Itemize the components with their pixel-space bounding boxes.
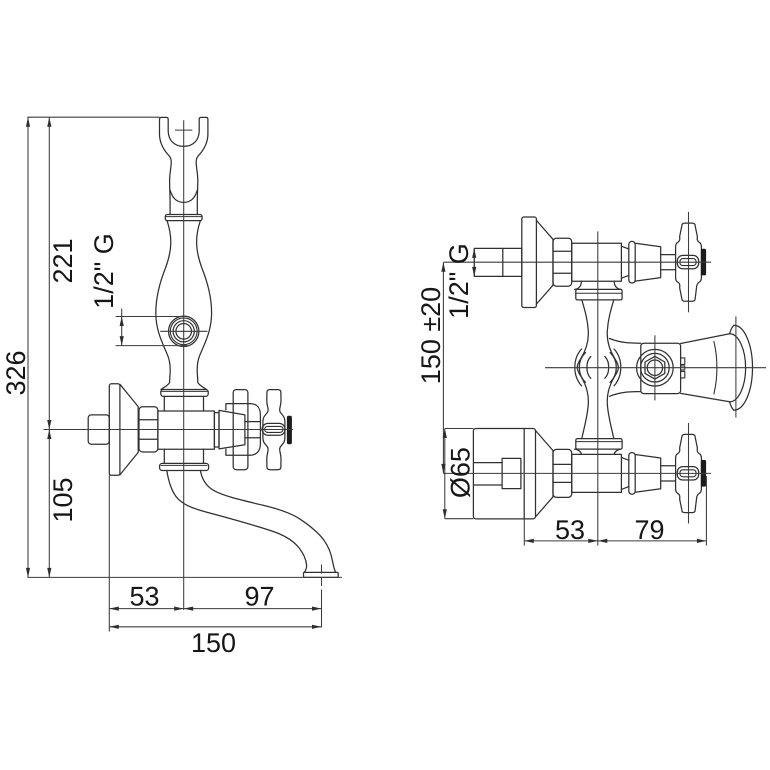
spout tube left wall [167,471,307,573]
spout neck walls [164,449,203,463]
column bottom collar lip [576,441,622,443]
half inch dim line right [473,248,475,276]
spout outlet foot [304,572,339,577]
dim line 150 [109,626,321,628]
bottom valve axis [443,472,711,474]
upper collar lip [162,390,207,392]
top valve axis [443,261,711,263]
column bottom fillets [575,449,621,454]
top flange cone [536,220,553,304]
dia65 ext lines [445,429,474,519]
svg-text:326: 326 [1,350,31,395]
dim line 53-97 [109,608,321,610]
bell lip curves [730,325,734,410]
bottom flange cone [536,431,554,517]
right wall plane extension [523,519,525,546]
bottom hex nut [553,449,572,497]
vase body right wall [197,221,212,390]
svg-text:150 ±20: 150 ±20 [416,287,446,384]
half inch ext lines left [116,317,188,346]
hex nut side view [139,407,158,452]
shower port circle ring3 [173,321,194,342]
top extension line [27,116,159,118]
svg-text:79: 79 [634,515,664,545]
junction nut center line [654,335,656,400]
right handle extension [705,476,707,546]
junction tabs [681,358,685,378]
dim line 326 [27,117,29,577]
handle slot inner [265,426,284,432]
bottom flange cup [473,429,535,519]
bottom baseline extension [27,576,342,578]
handshower cradle fork [160,117,208,214]
spout junction fillets [610,339,641,397]
left valve axis [44,429,294,431]
handle index button (black) [287,416,291,443]
svg-text:105: 105 [48,477,78,522]
upper collar flange [161,390,208,397]
bottom neck lines [621,457,628,489]
column bottom collar [576,439,622,450]
vase body left wall [156,221,171,390]
bottom hidden nipple [502,458,521,488]
top handle slot inner [680,259,696,266]
wall plane extension line [108,475,110,631]
svg-text:Ø65: Ø65 [446,447,476,498]
bottom handle stem [661,466,676,481]
bell shading arc [714,342,717,394]
spout collar lip [161,464,207,466]
svg-text:53: 53 [555,515,585,545]
bell axis line [545,367,766,369]
handle stem [245,422,260,438]
bottom handle slot inner [680,470,696,477]
top neck lines [621,246,628,278]
top nipple divider [502,248,504,276]
column right wall [607,300,618,439]
spout tube right wall [200,471,335,573]
svg-text:53: 53 [129,582,159,612]
valve body block [158,411,215,449]
bonnet cone [219,410,245,449]
arrowheads half inch left [120,317,124,346]
bottom handle index button (black) [701,460,705,486]
bottom flange plate line [523,429,525,519]
wall escutcheon plate [109,384,120,476]
fork collar ring [165,215,202,221]
shower port circle ring2 [170,318,197,345]
supply tail piece [88,415,109,444]
svg-text:150: 150 [191,628,236,658]
column center line [597,231,599,545]
bottom bonnet ring [629,453,635,495]
arrowheads 79 [598,539,707,543]
fork center tick [175,129,192,131]
column left wall [577,300,588,439]
bottom valve body [572,454,622,492]
half inch dim line left [121,309,123,346]
top bonnet ring [629,241,635,283]
svg-text:221: 221 [48,238,78,283]
top bonnet cone [635,243,661,281]
top supply nipple [474,248,522,276]
arrowheads 150pm20 [441,262,445,473]
arrowheads 97 [184,607,322,611]
column top collar lip [576,292,622,294]
column top collar [576,289,622,300]
column top fillets [575,281,621,289]
fork collar lip [165,216,202,218]
arrowheads 105 [47,430,51,578]
top valve body [572,243,622,281]
junction hex nut face [645,356,665,379]
junction nut circle outer [637,349,674,386]
bottom cross handle [676,434,702,512]
bottom hex facets [553,464,572,482]
top handle center line [688,212,690,312]
svg-text:97: 97 [244,582,274,612]
top handle stem [661,255,676,270]
dim line 150pm20 [442,262,444,473]
column ball arcs left [575,349,591,386]
dim line 53-79 [524,540,706,542]
bell rim inner [730,334,746,402]
bonnet ring [214,413,219,447]
bottom handle slot outer [677,467,698,480]
junction inner circle [647,360,662,375]
handle front spool [263,390,285,470]
top escutcheon plate [522,217,537,308]
left view main center line [183,120,185,610]
handle slot outer [262,423,285,435]
column ball arcs right [605,349,621,386]
arrowheads half inch right [472,248,476,276]
port center line [160,330,207,332]
spout outlet center line [321,565,323,594]
arrowheads 326 [26,117,30,577]
junction nut circle ring [641,353,670,382]
arrowheads 150 [109,625,321,629]
shower port circle inner [176,324,192,340]
bell cone top edge [681,334,730,344]
top hex nut [553,238,572,286]
bottom hidden nipple tube [474,463,502,485]
dim line 221-105 [48,117,50,577]
bell center line [735,316,737,417]
svg-text:1/2" G: 1/2" G [444,243,474,319]
bell rim outer [734,325,753,410]
bottom handle center line [688,423,690,524]
svg-text:1/2" G: 1/2" G [89,233,119,309]
spout collar flange [160,463,209,470]
arrowheads 53 left [109,607,183,611]
handle rear spoke bar [233,390,248,470]
dia65 dim line [444,429,446,519]
top handle index button (black) [701,249,705,275]
hex nut facet lines [139,420,158,440]
arrowheads 221 [47,117,51,429]
arrowheads 53 right [524,539,598,543]
neck walls above valve body [164,396,203,411]
bell cone bottom edge [681,393,730,401]
spout junction block [641,343,681,393]
shower port circle outer [169,316,199,346]
top cross handle [676,223,702,301]
fork ball arc [170,190,197,202]
top handle slot outer [677,255,698,268]
handle hub cup [226,404,261,456]
wall flange cone [120,384,138,475]
arrowheads dia65 [443,429,447,519]
bottom bonnet cone [635,455,661,493]
top hex facets [553,251,572,273]
